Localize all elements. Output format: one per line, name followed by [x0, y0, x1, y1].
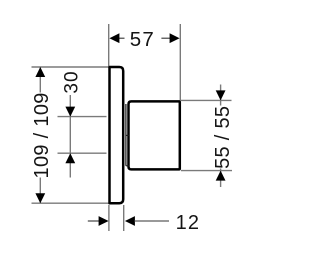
dim 109/109 dimension line: [39, 67, 41, 203]
dim 57 left arrowhead: [109, 33, 119, 43]
extension line left of dim 57: [108, 24, 110, 66]
extension line lower of dim 30: [58, 152, 107, 154]
neck parting tick middle: [126, 134, 129, 136]
handle knob (side profile): [129, 101, 180, 169]
dim 109/109 label background: [32, 93, 50, 178]
dim 12 left arrowhead (points right): [99, 216, 109, 226]
dim 30 dimension line: [69, 95, 71, 178]
dim 57 left arrow tail: [119, 37, 125, 39]
extension line upper of dim 55/55: [181, 99, 232, 101]
dim 109/109 down arrowhead: [35, 193, 45, 203]
dim 55/55 label background: [213, 106, 231, 169]
dim 109/109 up arrowhead: [35, 67, 45, 77]
extension line lower of dim 55/55: [181, 170, 232, 172]
svg-text:12: 12: [176, 212, 201, 234]
svg-text:57: 57: [130, 28, 155, 51]
dim 55/55 dimension line: [220, 85, 222, 188]
svg-text:109 / 109: 109 / 109: [31, 92, 53, 178]
extension line right of dim 57 (to knob front corner): [179, 24, 181, 101]
extension line upper of dim 30: [58, 116, 107, 118]
extension line top of dim 109/109: [32, 66, 110, 68]
svg-text:30: 30: [62, 70, 83, 93]
wall escutcheon flange (side profile): [110, 67, 124, 203]
dim 57 right arrow tail: [161, 37, 170, 39]
extension line bottom of dim 109/109: [32, 202, 110, 204]
dim 12 left arrow tail: [88, 220, 100, 222]
neck between flange and knob: [125, 104, 127, 166]
svg-text:55 / 55: 55 / 55: [212, 106, 234, 169]
dim 12 right arrowhead (points left): [125, 216, 135, 226]
extension line left of dim 12: [108, 205, 110, 231]
extension line right of dim 12: [123, 205, 125, 231]
dim 12 right arrow tail: [134, 220, 169, 222]
dim 30 up arrowhead (below lower line): [65, 153, 75, 163]
dim 30 down arrowhead (above upper line): [65, 107, 75, 117]
dim 55/55 up arrowhead (below lower line): [216, 171, 226, 181]
dim 55/55 down arrowhead (above upper line): [216, 90, 226, 100]
dim 57 right arrowhead: [170, 33, 180, 43]
neck joint tick bottom: [126, 165, 129, 167]
